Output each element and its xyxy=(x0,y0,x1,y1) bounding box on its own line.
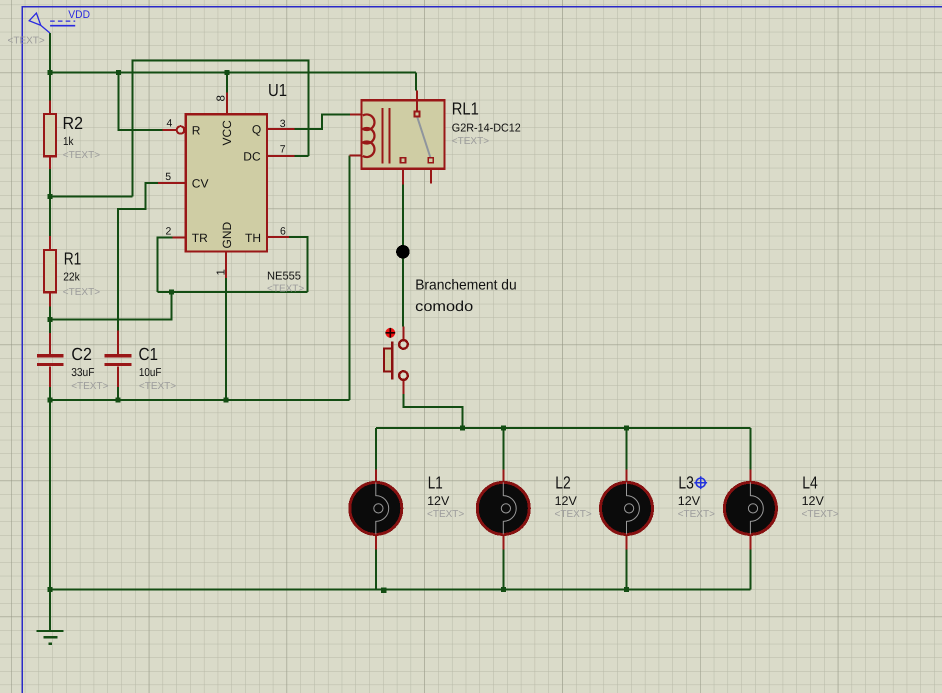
svg-text:7: 7 xyxy=(280,144,286,156)
lamp L3 origin marker (blue crosshair) xyxy=(694,476,707,489)
wire ground rail y=400 xyxy=(49,399,349,401)
wire CV to C1 xyxy=(118,183,158,331)
wire relay coil bottom down to ground rail xyxy=(348,156,350,401)
junction VDD at left rail xyxy=(48,70,53,75)
ground xyxy=(37,631,64,644)
switch origin marker (red) xyxy=(385,328,395,338)
junction VDD branch pin4 xyxy=(116,70,121,75)
resistor R2 xyxy=(44,100,56,169)
svg-text:Q: Q xyxy=(252,122,261,136)
U1 pin 5 stub xyxy=(158,182,186,184)
relay RL1 core bars xyxy=(383,108,390,164)
wire L3 feed xyxy=(626,428,628,470)
U1 pin 4 stub with inverting bubble xyxy=(163,126,185,134)
lamp L3 xyxy=(601,469,653,549)
svg-text:CV: CV xyxy=(192,176,209,190)
wire VDD horizontal rail y=72.5 xyxy=(49,72,416,74)
svg-text:GND: GND xyxy=(220,222,234,249)
wire VDD branch to pin 4 (R) xyxy=(119,73,163,131)
svg-text:VDD: VDD xyxy=(68,9,90,21)
wire left rail ground run down xyxy=(49,399,51,590)
lamp L4 xyxy=(724,469,776,549)
relay RL1 unused pin stub down xyxy=(430,169,432,184)
junction L2 at lamp bus xyxy=(501,426,506,431)
resistor R1 xyxy=(44,236,56,307)
svg-text:12V: 12V xyxy=(678,494,701,508)
power symbol VDD xyxy=(29,13,75,33)
svg-text:4: 4 xyxy=(167,117,173,129)
switch pushbutton actuator xyxy=(384,342,392,380)
svg-text:C1: C1 xyxy=(139,344,159,364)
relay RL1 unused pin square xyxy=(428,158,433,163)
wire R1 bottom to C2 top xyxy=(49,306,51,333)
junction left rail at bottom bus xyxy=(48,587,53,592)
junction C1 at ground rail xyxy=(115,398,120,403)
relay RL1 throw pin square xyxy=(401,158,406,163)
svg-text:3: 3 xyxy=(280,118,286,130)
U1 pin 7 stub xyxy=(267,155,295,157)
wire L2 bottom drop xyxy=(502,549,504,589)
junction L3 at lamp bus xyxy=(624,426,629,431)
svg-text:RL1: RL1 xyxy=(452,99,479,119)
relay RL1 coil bottom pin stub xyxy=(349,155,361,157)
junction R1/C2 node xyxy=(48,317,53,322)
svg-text:Branchement du: Branchement du xyxy=(415,277,517,293)
svg-text:L3: L3 xyxy=(678,473,694,493)
relay RL1 switch blade xyxy=(417,117,430,157)
wire VDD branch to pin 8 (VCC) xyxy=(226,73,228,93)
svg-text:<TEXT>: <TEXT> xyxy=(802,509,839,520)
relay RL1 coil arcs xyxy=(363,114,375,157)
lamp L1 xyxy=(350,469,402,549)
wire DC net top loop y=60.3 xyxy=(133,60,309,196)
capacitor C2 xyxy=(37,333,64,387)
relay RL1 common pin stub xyxy=(416,91,418,112)
svg-text:6: 6 xyxy=(280,225,286,237)
relay RL1 throw pin stub down xyxy=(402,169,404,185)
wire L3 bottom drop xyxy=(626,549,628,589)
junction L3 at bottom bus xyxy=(624,587,629,592)
svg-text:8: 8 xyxy=(216,95,228,101)
svg-text:<TEXT>: <TEXT> xyxy=(267,284,304,295)
relay RL1 body xyxy=(361,100,444,169)
wire VDD branch down to relay common pole xyxy=(415,73,417,91)
wire up to pin 2 TR xyxy=(158,238,173,293)
wire pin 1 GND down to rail xyxy=(225,278,227,400)
svg-text:<TEXT>: <TEXT> xyxy=(678,509,715,520)
svg-text:10uF: 10uF xyxy=(139,367,162,379)
svg-text:L2: L2 xyxy=(555,473,571,493)
wire relay throw pin down to switch xyxy=(402,185,404,327)
svg-text:<TEXT>: <TEXT> xyxy=(452,136,489,147)
U1 pin 8 stub xyxy=(226,93,228,115)
junction VDD branch pin8 xyxy=(224,70,229,75)
junction TR-TH tap xyxy=(169,290,174,295)
wire up to pin 6 TH xyxy=(289,237,308,292)
wire TR/TH link from R1-C2 junction xyxy=(50,292,172,320)
junction switch wire at lamp bus xyxy=(460,426,465,431)
U1 pin 2 stub xyxy=(172,237,186,239)
wire DC loop to R2/R1 junction xyxy=(50,195,133,197)
wire C1 bottom to ground rail xyxy=(117,387,119,401)
svg-text:<TEXT>: <TEXT> xyxy=(555,509,592,520)
U1 pin 1 stub xyxy=(225,251,227,278)
svg-text:1k: 1k xyxy=(63,136,74,148)
svg-text:U1: U1 xyxy=(268,80,287,100)
wire left rail to ground symbol xyxy=(49,590,51,631)
svg-text:33uF: 33uF xyxy=(71,367,94,379)
svg-text:12V: 12V xyxy=(427,494,450,508)
svg-text:12V: 12V xyxy=(555,494,578,508)
svg-text:DC: DC xyxy=(243,149,261,163)
wire Q output to relay coil top xyxy=(295,115,350,129)
svg-text:<TEXT>: <TEXT> xyxy=(63,150,100,161)
node black junction blob on comodo wire xyxy=(396,245,410,259)
svg-text:<TEXT>: <TEXT> xyxy=(71,381,108,392)
svg-text:L1: L1 xyxy=(428,473,443,493)
svg-text:VCC: VCC xyxy=(220,120,234,146)
relay RL1 coil top pin stub xyxy=(350,114,362,116)
svg-text:12V: 12V xyxy=(802,494,825,508)
svg-text:NE555: NE555 xyxy=(267,270,301,282)
wire lamp top bus y=428.2 xyxy=(376,427,751,429)
U1 pin 3 stub xyxy=(267,128,295,130)
wire pin7 DC green stub xyxy=(295,155,309,157)
svg-text:R2: R2 xyxy=(63,113,84,133)
junction C2 at ground rail xyxy=(48,398,53,403)
svg-text:R1: R1 xyxy=(64,249,81,269)
svg-text:<TEXT>: <TEXT> xyxy=(63,287,100,298)
junction pin1 GND at ground rail xyxy=(224,398,229,403)
capacitor C1 xyxy=(105,331,132,388)
wire L1 feed xyxy=(375,428,377,470)
switch pushbutton (comodo) leads xyxy=(402,327,404,395)
switch pushbutton contact circles xyxy=(399,340,408,380)
svg-text:TR: TR xyxy=(192,231,208,245)
relay RL1 common pin square xyxy=(414,111,419,116)
U1 pin 6 stub xyxy=(267,236,289,238)
svg-text:1: 1 xyxy=(215,269,227,275)
svg-text:R: R xyxy=(192,124,201,138)
wire switch bottom to lamp bus xyxy=(403,394,462,428)
svg-text:<TEXT>: <TEXT> xyxy=(139,381,176,392)
svg-text:comodo: comodo xyxy=(415,299,473,315)
wire TR-TH horizontal y=292 xyxy=(158,291,308,293)
wire L4 feed xyxy=(749,428,751,470)
junction R2/R1 node xyxy=(48,194,53,199)
wire L1 bottom drop xyxy=(375,549,377,589)
wire lamp bottom bus / ground return y=589.5 xyxy=(50,589,750,591)
wire C2 bottom to ground rail xyxy=(49,387,51,401)
wire L4 bottom drop xyxy=(749,549,751,589)
svg-text:5: 5 xyxy=(165,171,171,183)
svg-text:G2R-14-DC12: G2R-14-DC12 xyxy=(452,122,521,134)
junction L2 at bottom bus xyxy=(501,587,506,592)
timer IC U1 NE555 body xyxy=(186,114,267,251)
wire R2 bottom to R1 top xyxy=(49,168,51,236)
svg-text:<TEXT>: <TEXT> xyxy=(427,509,464,520)
svg-text:L4: L4 xyxy=(802,473,818,493)
lamp L2 xyxy=(477,469,529,549)
svg-text:C2: C2 xyxy=(71,344,92,364)
svg-text:TH: TH xyxy=(245,231,261,245)
svg-text:22k: 22k xyxy=(63,272,80,284)
wire L2 feed xyxy=(502,428,504,470)
junction L1 at bottom bus xyxy=(381,588,387,594)
wire VDD rail vertical from power symbol to R2 top xyxy=(49,33,51,100)
svg-text:2: 2 xyxy=(166,226,172,238)
svg-text:<TEXT>: <TEXT> xyxy=(8,35,45,46)
